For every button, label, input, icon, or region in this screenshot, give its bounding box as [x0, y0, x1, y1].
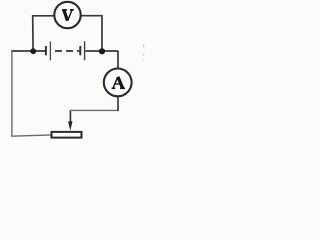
- ammeter U2: [104, 69, 132, 97]
- wire: bottom side to rheostat: [11, 135, 52, 136]
- stray print speck 3: [143, 60, 144, 62]
- wire: left vertical side: [11, 50, 13, 135]
- battery cell 2 short plate: [79, 46, 81, 55]
- wire: horizontal run to wiper: [70, 109, 118, 111]
- junction node right: [99, 48, 105, 54]
- battery cell 1 short plate: [45, 46, 47, 55]
- battery B1: [46, 41, 85, 60]
- wire: voltmeter left lead: [33, 16, 55, 51]
- wire: ammeter top lead: [117, 51, 119, 68]
- junction node left: [30, 48, 36, 54]
- voltmeter label V: [62, 10, 74, 21]
- battery cell 1 long plate: [49, 41, 51, 60]
- wire: voltmeter right lead: [81, 16, 102, 51]
- wire: dashed link between cells: [55, 50, 80, 52]
- wire: battery row left segment: [11, 50, 45, 52]
- rheostat R1 body: [52, 132, 82, 138]
- wire: ammeter bottom lead: [117, 97, 119, 111]
- wire: wiper vertical drop: [69, 110, 71, 123]
- voltmeter U1: [54, 2, 80, 28]
- stray print speck 2: [143, 54, 145, 56]
- ammeter label A: [112, 77, 125, 89]
- battery cell 2 long plate: [84, 41, 86, 60]
- wire: battery row right segment: [86, 50, 119, 52]
- rheostat R1 wiper arrow: [68, 121, 72, 130]
- stray print speck 1: [143, 45, 145, 48]
